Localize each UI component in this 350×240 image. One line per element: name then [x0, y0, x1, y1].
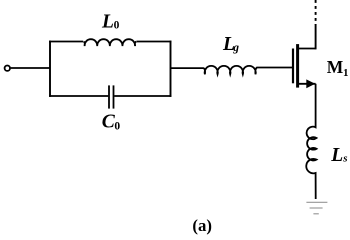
inductor Ls coil (with source vertical wire)	[306, 84, 316, 199]
svg-text:0: 0	[114, 120, 120, 132]
wire Lg to gate	[257, 67, 293, 69]
transistor M1 channel bar	[296, 44, 299, 88]
svg-text:0: 0	[114, 20, 120, 32]
svg-text:s: s	[342, 152, 347, 164]
transistor M1 gate bar	[292, 49, 294, 84]
tank rectangle top-right wire	[137, 41, 172, 43]
svg-text:g: g	[232, 42, 239, 54]
svg-text:L: L	[330, 145, 343, 166]
input port terminal	[5, 66, 10, 71]
tank rectangle bottom-right wire	[114, 95, 171, 97]
ground symbol	[306, 202, 327, 214]
svg-text:1: 1	[343, 67, 349, 79]
capacitor C0 right plate	[113, 85, 115, 108]
tank rectangle top-left wire	[49, 41, 83, 43]
svg-text:L: L	[101, 11, 114, 32]
svg-text:(a): (a)	[192, 216, 212, 235]
drain dashed supply line	[315, 0, 317, 25]
drain vertical wire	[315, 24, 317, 49]
svg-text:M: M	[327, 57, 344, 77]
wire tank to Lg	[171, 67, 204, 69]
inductor Lg coil	[203, 66, 256, 74]
tank rectangle right edge	[170, 41, 172, 97]
inductor L0 coil	[83, 39, 136, 46]
tank rectangle left edge	[49, 41, 51, 97]
drain stub wire	[298, 48, 316, 50]
tank rectangle bottom-left wire	[49, 95, 108, 97]
capacitor C0 left plate	[108, 85, 110, 108]
source stub wire	[298, 83, 316, 85]
wire input to tank	[11, 67, 50, 69]
source arrow	[306, 79, 315, 88]
